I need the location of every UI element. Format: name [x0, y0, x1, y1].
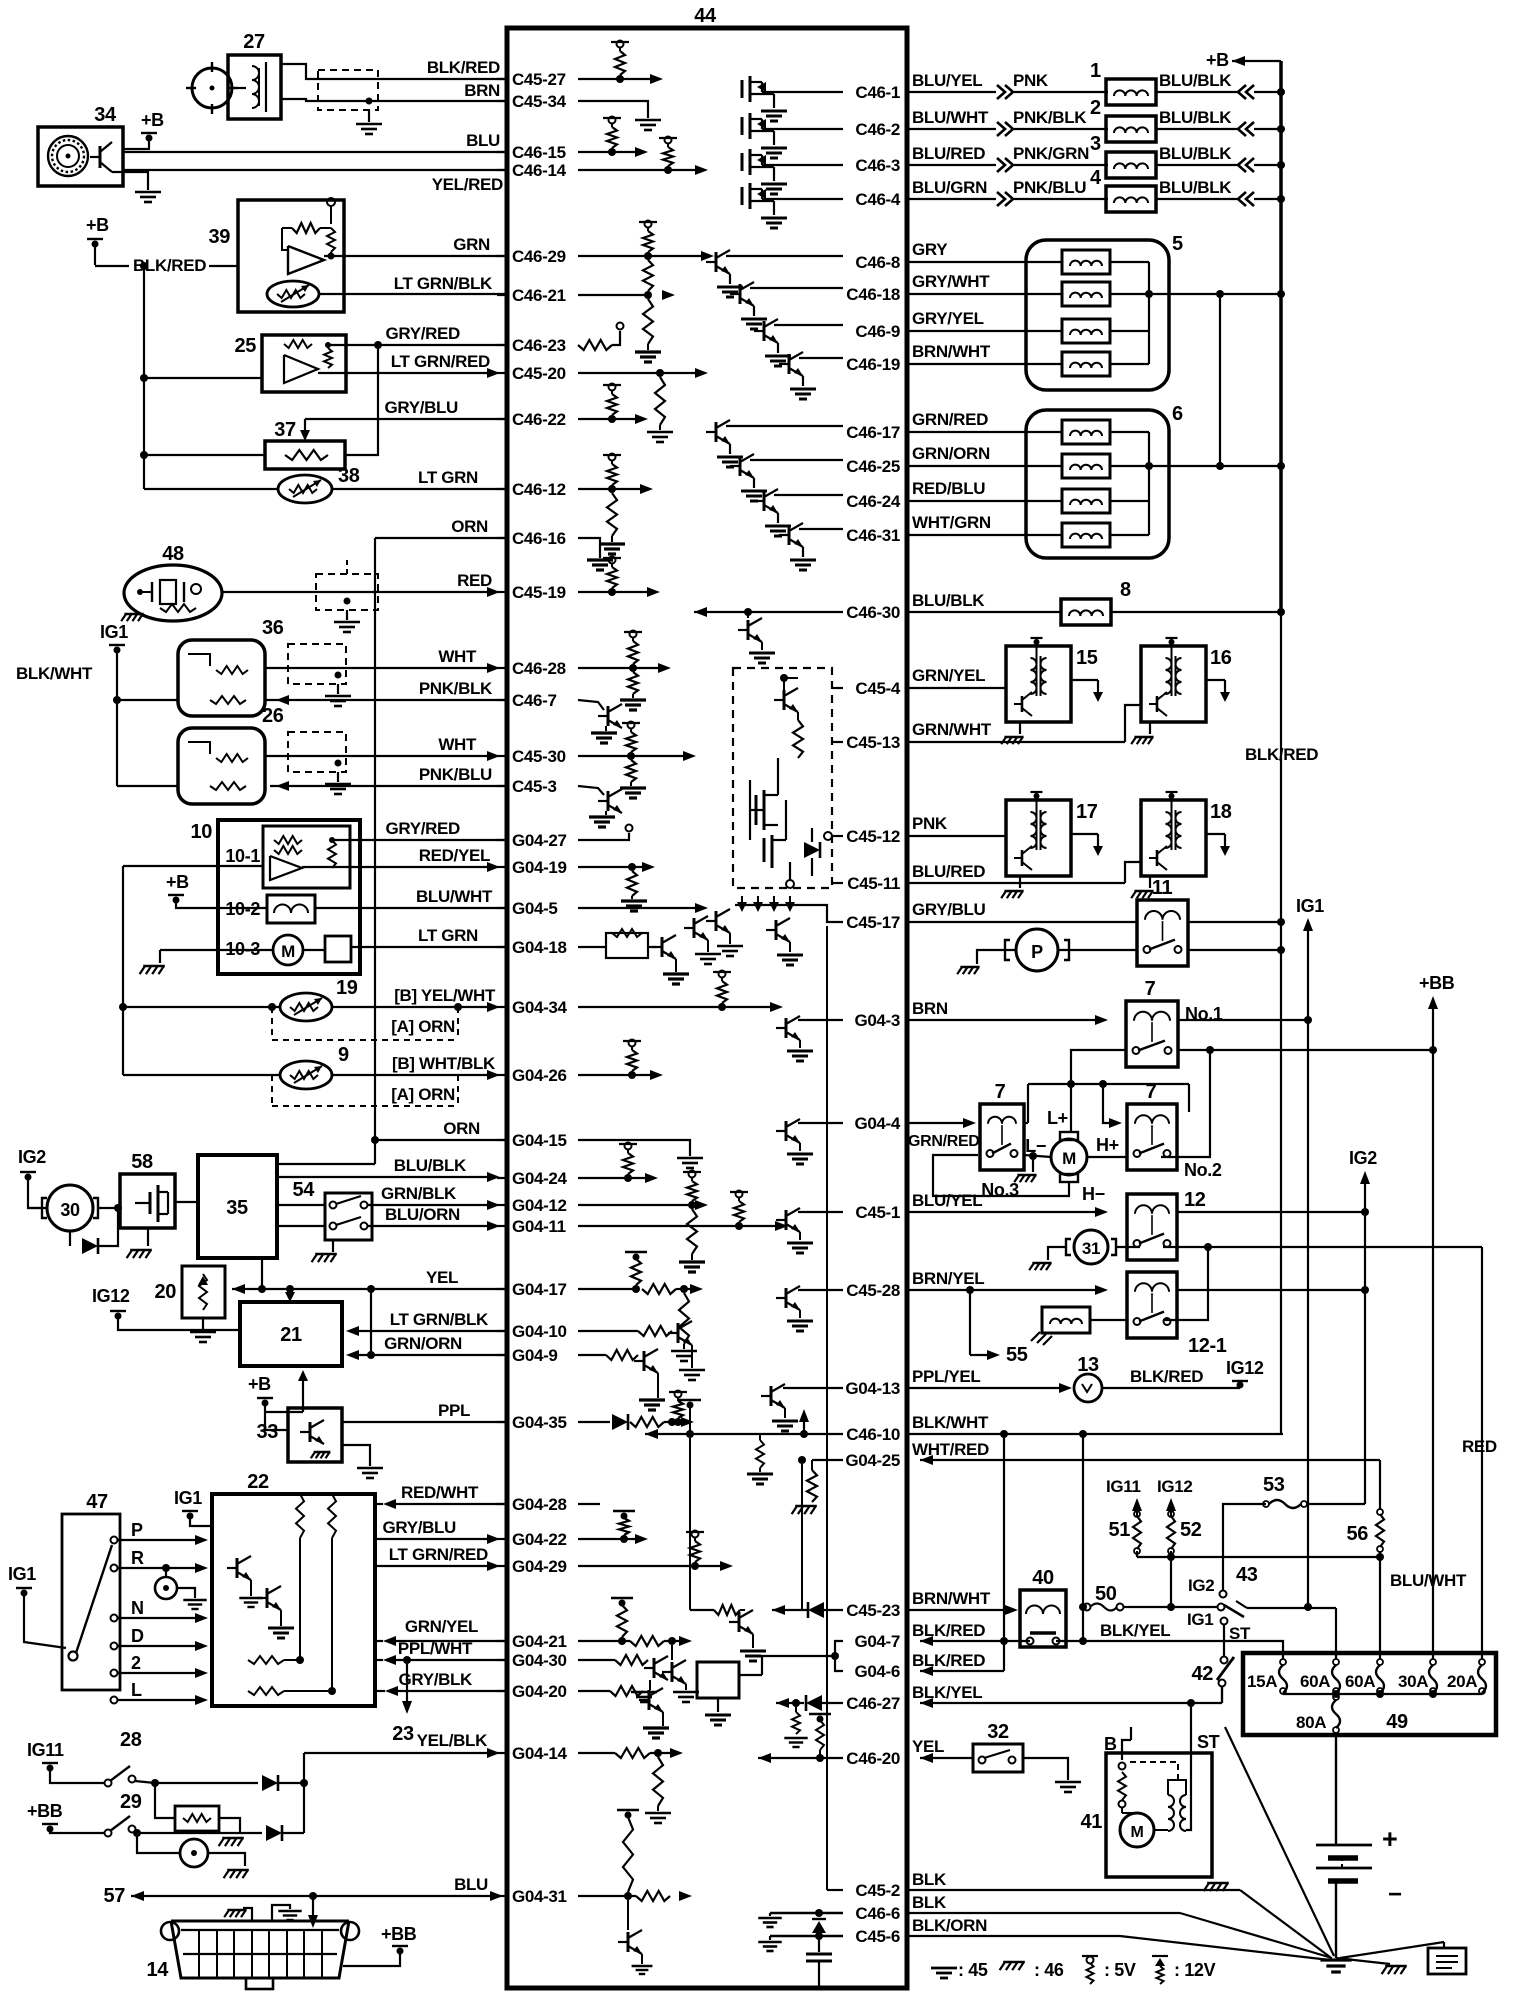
cell C46-20 [758, 1753, 843, 1763]
spark output 16 [1206, 680, 1230, 702]
12V pull-up chain G04-31 [617, 1810, 639, 1900]
output transistor C46-9 [754, 319, 843, 366]
pin G04-4 [854, 1114, 900, 1133]
output transistor C46-25 [730, 454, 843, 501]
svg-text:H+: H+ [1096, 1135, 1119, 1155]
svg-text:D: D [131, 1626, 144, 1646]
wire PPL G04-35 [342, 1421, 506, 1423]
module output arrows [735, 896, 800, 912]
knock sensor 48 [121, 543, 222, 621]
svg-text:LT GRN: LT GRN [418, 468, 478, 487]
pin C46-6 [855, 1904, 900, 1923]
pin C45-6 [855, 1927, 900, 1946]
shield box 36 [288, 644, 351, 706]
fusible link 52 [1167, 1511, 1175, 1607]
relay 12-1 [1127, 1272, 1227, 1357]
svg-text:GRY/RED: GRY/RED [386, 324, 461, 343]
svg-text:C46-7: C46-7 [512, 691, 557, 710]
ground 58 [127, 1228, 152, 1258]
ground [356, 124, 382, 134]
spark output 15 [1071, 680, 1103, 702]
amplifier 39 box [209, 200, 344, 312]
svg-text:G04-35: G04-35 [512, 1413, 567, 1432]
chevron [997, 122, 1013, 136]
wire ST diag top [1221, 1687, 1223, 1703]
svg-text:[A] ORN: [A] ORN [391, 1085, 455, 1104]
svg-text:C46-31: C46-31 [846, 526, 900, 545]
amplifier 25 box [235, 335, 346, 392]
internal resistors 22 [296, 1494, 336, 1695]
svg-text:C46-19: C46-19 [846, 355, 900, 374]
label BLK/YEL 40 [1100, 1621, 1170, 1640]
wire G04-35 [578, 1414, 694, 1430]
op-amp in 25 [284, 340, 332, 383]
svg-text:C46-12: C46-12 [512, 480, 566, 499]
label BLU [466, 131, 500, 150]
wire 58 to 35 [175, 1201, 198, 1203]
svg-text:C46-1: C46-1 [855, 83, 900, 102]
ground 16 [1131, 722, 1153, 744]
svg-text:C45-20: C45-20 [512, 364, 566, 383]
svg-text:37: 37 [274, 419, 296, 441]
svg-text:48: 48 [162, 543, 184, 565]
5V pull-up chain C46-12 [603, 454, 621, 543]
wire BLU/BLK G04-24 [277, 1172, 500, 1182]
wire C45-19 [578, 587, 660, 597]
label [A] ORN [391, 1017, 455, 1036]
5V pull-up chain C46-28 [620, 631, 646, 711]
pin G04-29 [497, 1557, 567, 1576]
shield box 26 [288, 732, 351, 794]
fuse 60A b [1345, 1659, 1384, 1694]
svg-text:20A: 20A [1447, 1672, 1477, 1691]
label PPL [438, 1401, 470, 1420]
label YEL/RED [432, 175, 503, 194]
pin C46-14 [497, 161, 567, 180]
shield box 27 [318, 70, 378, 122]
label BLU/BLK [1155, 71, 1238, 92]
label LT GRN [418, 468, 478, 487]
wire to +B bus [1254, 195, 1285, 203]
solenoid coil GRY/WHT [1062, 282, 1110, 306]
transistor G04-21 [662, 1645, 699, 1702]
pin G04-34 [497, 998, 568, 1017]
svg-text:PPL/YEL: PPL/YEL [912, 1367, 980, 1386]
wire into 38 [144, 488, 278, 490]
svg-text:C45-27: C45-27 [512, 70, 566, 89]
wire N [118, 1598, 208, 1623]
legend ground 46 [1000, 1960, 1064, 1980]
pin G04-14 [497, 1744, 568, 1763]
label BLK/RED G04-6 [912, 1651, 1004, 1676]
wire RED/YEL from 10-1 [302, 862, 500, 872]
svg-text:12: 12 [1184, 1189, 1206, 1211]
wire BLU/WHT from 10-2 [315, 907, 506, 909]
wire 43 to fuse [1247, 1608, 1336, 1659]
pin C46-28 [497, 659, 566, 678]
label [B] YEL/WHT [394, 986, 496, 1005]
pin G04-15 [497, 1131, 567, 1150]
wire C45-20 [578, 368, 708, 378]
svg-text:BLU/BLK: BLU/BLK [1159, 71, 1232, 90]
svg-text:L: L [131, 1680, 142, 1700]
chevron [1238, 122, 1254, 136]
wire 56 down to fuse [1379, 1557, 1381, 1659]
svg-text:31: 31 [1082, 1239, 1100, 1258]
svg-text:C46-3: C46-3 [855, 156, 900, 175]
solenoid coil GRN/ORN [1062, 454, 1110, 478]
svg-text:GRN/WHT: GRN/WHT [912, 720, 992, 739]
IG12 supply 13 [1226, 1358, 1264, 1389]
pin C45-11 [847, 874, 900, 893]
pin C46-15 [497, 143, 566, 162]
relay 11 [1137, 877, 1188, 966]
svg-text:60A: 60A [1345, 1672, 1375, 1691]
wire LT GRN/RED G04-29 [375, 1561, 500, 1571]
pin C45-12 [846, 827, 900, 846]
lamp on R [155, 1568, 207, 1609]
pin G04-13 [845, 1379, 900, 1398]
svg-text:23: 23 [392, 1723, 414, 1745]
svg-text:BRN: BRN [912, 999, 948, 1018]
wire WHT/BLK from 9 [123, 1070, 500, 1080]
svg-text:GRY/BLU: GRY/BLU [383, 1518, 457, 1537]
wire G04-21 [578, 1636, 692, 1646]
ECU main box 44 [507, 5, 907, 1988]
svg-text:+BB: +BB [381, 1924, 417, 1944]
output transistor C46-24 [754, 489, 843, 536]
5V pull-up G04-26 [623, 1040, 641, 1080]
label GRY/RED [386, 819, 461, 838]
fuse 30A [1398, 1659, 1437, 1694]
label RED/BLU [909, 479, 1063, 501]
shield box 48 [316, 560, 378, 620]
svg-text:C46-9: C46-9 [855, 322, 900, 341]
wire BLU/ORN G04-11 [277, 1221, 500, 1231]
wire C46-12 [578, 484, 653, 494]
5V pull-up C46-15 [603, 117, 621, 157]
label ST 41 [1197, 1732, 1220, 1752]
igniter 36 box [178, 617, 284, 716]
12V pull-up C46-10 [679, 1400, 701, 1434]
bracket G04-7 G04-6 [831, 1641, 843, 1671]
pin C45-27 [497, 70, 566, 89]
svg-text:7: 7 [1146, 1081, 1157, 1103]
svg-text:C46-14: C46-14 [512, 161, 567, 180]
wire G04-31 [578, 1891, 692, 1901]
control unit 35 [198, 1155, 277, 1258]
svg-text:9: 9 [338, 1044, 349, 1066]
vertical bus left of ovals [119, 866, 263, 1075]
svg-text:M: M [281, 942, 295, 961]
transistor C46-7 [578, 700, 622, 743]
wire D [118, 1626, 208, 1651]
label PNK/BLU [419, 765, 492, 784]
svg-text:RED/WHT: RED/WHT [401, 1483, 479, 1502]
fusible link 53 [1263, 1474, 1307, 1508]
svg-text:: 12V: : 12V [1174, 1960, 1216, 1980]
wire IG1 contact down [1223, 1625, 1225, 1656]
label BLU/YEL 12 [909, 1191, 1108, 1217]
svg-text:15A: 15A [1247, 1672, 1277, 1691]
pin C46-31 [846, 526, 900, 545]
legend ground 45 [931, 1960, 988, 1980]
vertical BLK/WHT to relay40 [1003, 1434, 1005, 1671]
label BLU/BLK [1155, 108, 1238, 129]
internal vertical from G04-25 [801, 1464, 803, 1610]
svg-text:WHT/RED: WHT/RED [912, 1440, 989, 1459]
wire C46-28 [578, 663, 671, 673]
svg-text:12-1: 12-1 [1188, 1335, 1227, 1357]
wire G04-14 [578, 1748, 683, 1758]
transistor C45-1 [776, 1208, 843, 1253]
svg-text:GRY/WHT: GRY/WHT [912, 272, 990, 291]
svg-text:+B: +B [1206, 50, 1229, 70]
svg-text:R: R [131, 1548, 144, 1568]
pin G04-26 [497, 1066, 567, 1085]
svg-text:GRY/BLU: GRY/BLU [385, 398, 459, 417]
chevron [1238, 85, 1254, 99]
svg-text:PNK/BLU: PNK/BLU [1013, 178, 1086, 197]
label LT GRN/RED [391, 352, 490, 371]
wire ORN G04-15 [375, 1139, 506, 1141]
pin G04-27 [497, 831, 567, 850]
wire 23 arrow [392, 1660, 414, 1745]
legend 5V [1082, 1956, 1136, 1984]
svg-text:G04-11: G04-11 [512, 1217, 566, 1236]
switch 32 [973, 1721, 1023, 1772]
label BLK/RED G04-7 [912, 1621, 1030, 1646]
fan motor M [1051, 1132, 1087, 1182]
relay 7 No.1 [1126, 978, 1223, 1067]
wire C45-11 [832, 882, 843, 884]
svg-text:G04-14: G04-14 [512, 1744, 568, 1763]
ground 18 [1131, 876, 1153, 898]
svg-text:49: 49 [1386, 1711, 1408, 1733]
transistor C45-28 [776, 1286, 843, 1331]
relay driver 33 box [257, 1408, 342, 1462]
svg-text:G04-3: G04-3 [854, 1011, 900, 1030]
svg-text:+: + [1382, 1824, 1397, 1854]
resistor to ground G04-17 [671, 1293, 697, 1361]
pin C46-21 [497, 286, 566, 305]
resistor to ground G04-14 [645, 1757, 671, 1823]
pin C46-20 [846, 1749, 900, 1768]
svg-text:LT GRN/RED: LT GRN/RED [391, 352, 490, 371]
svg-text:PNK/BLK: PNK/BLK [419, 679, 493, 698]
svg-text:BLK/RED: BLK/RED [427, 58, 500, 77]
svg-text:IG1: IG1 [1296, 896, 1324, 916]
regulator box cell [697, 1656, 835, 1725]
ground [587, 560, 613, 570]
+B supply 39 [86, 215, 109, 265]
svg-text:40: 40 [1032, 1567, 1054, 1589]
svg-text:36: 36 [262, 617, 284, 639]
svg-text:C46-16: C46-16 [512, 529, 566, 548]
5V pull-up G04-24 [619, 1143, 637, 1183]
wire C45-17 [766, 905, 843, 965]
wire G04-30 [578, 1655, 668, 1702]
pin C45-4 [855, 679, 900, 698]
ground M left [1014, 1156, 1036, 1182]
label BRN/WHT [909, 342, 1063, 364]
label BLU/GRN [909, 178, 996, 199]
transmission control 22 box [212, 1471, 375, 1706]
thermistor 19 [280, 977, 358, 1021]
wire 51 52 to 56 [1137, 1553, 1384, 1561]
wire C45-34 to ground [578, 101, 648, 118]
svg-text:GRY/BLU: GRY/BLU [912, 900, 986, 919]
svg-text:51: 51 [1109, 1519, 1131, 1541]
wire G04-28 [578, 1503, 600, 1505]
svg-text:IG12: IG12 [1157, 1477, 1193, 1496]
wire LT GRN/RED from 25 [318, 368, 500, 378]
wire G04-19 [578, 862, 655, 872]
svg-text:WHT: WHT [438, 735, 477, 754]
label LT GRN/BLK [390, 1310, 489, 1329]
wire H- loop [933, 1155, 1069, 1196]
wire No.1 to motor [1070, 1084, 1072, 1133]
svg-text:22: 22 [247, 1471, 269, 1493]
svg-text:ST: ST [1197, 1732, 1220, 1752]
47 contacts [69, 1537, 118, 1704]
sensor 27 box [228, 31, 281, 119]
svg-text:G04-30: G04-30 [512, 1651, 567, 1670]
ground near 14 b [272, 1905, 302, 1921]
svg-text:BLK: BLK [912, 1870, 947, 1889]
label YEL/BLK [417, 1731, 488, 1750]
solenoid group 6 box [1026, 403, 1183, 558]
pin C46-29 [497, 247, 566, 266]
svg-text:IG2: IG2 [1349, 1148, 1377, 1168]
svg-text:L+: L+ [1047, 1108, 1068, 1128]
IG1 supply 22 [174, 1488, 212, 1526]
diode 30 [70, 1204, 122, 1254]
svg-text:2: 2 [1090, 97, 1101, 119]
transistor C45-23 [714, 1605, 766, 1661]
wire G04-10 [578, 1321, 705, 1380]
svg-text:C45-6: C45-6 [855, 1927, 900, 1946]
wire YEL/BLK G04-14 [304, 1748, 500, 1833]
svg-text:BLK/RED: BLK/RED [912, 1651, 985, 1670]
wire No.2 contact right [1161, 1050, 1210, 1157]
motor 31 [1066, 1230, 1116, 1264]
label BLK/RED 13 [1102, 1367, 1240, 1388]
ground 41 [1204, 1883, 1229, 1891]
wire G04-29 [578, 1561, 733, 1571]
svg-text:BLU/RED: BLU/RED [912, 862, 985, 881]
pin C46-18 [846, 285, 900, 304]
svg-text:PNK/BLU: PNK/BLU [419, 765, 492, 784]
label GRY/YEL [909, 309, 1063, 331]
svg-text:YEL: YEL [912, 1737, 944, 1756]
chevron [997, 158, 1013, 172]
svg-text:G04-24: G04-24 [512, 1169, 568, 1188]
wire BLU from 34 [123, 151, 506, 153]
svg-text:[A] ORN: [A] ORN [391, 1017, 455, 1036]
svg-text:G04-15: G04-15 [512, 1131, 567, 1150]
wire 50 to 43 [1123, 1603, 1312, 1611]
svg-text:41: 41 [1081, 1811, 1103, 1833]
label BLU/BLK 8 [909, 591, 1061, 612]
fuse 60A a [1300, 1659, 1340, 1694]
svg-text:LT GRN/BLK: LT GRN/BLK [394, 274, 493, 293]
svg-text:4: 4 [1090, 167, 1102, 189]
svg-text:39: 39 [209, 226, 231, 248]
label BLU [454, 1875, 488, 1894]
5V pull-up C46-22 [603, 384, 621, 424]
wire C45-27 [578, 74, 663, 84]
svg-text:GRN/ORN: GRN/ORN [912, 444, 990, 463]
motor 30 [28, 1185, 120, 1231]
label GRN/YEL [405, 1617, 478, 1636]
ground 33 [342, 1445, 383, 1478]
fuse bus [1283, 1690, 1482, 1698]
wire PNK/BLU to 26 [270, 781, 506, 791]
svg-text:47: 47 [86, 1491, 108, 1513]
svg-text:G04-29: G04-29 [512, 1557, 567, 1576]
IG1 supply right [1296, 896, 1324, 1609]
svg-text:8: 8 [1120, 579, 1131, 601]
5V pull-up G04-11 [730, 1191, 748, 1231]
pin G04-21 [497, 1632, 567, 1651]
svg-text:80A: 80A [1296, 1713, 1326, 1732]
svg-text:G04-4: G04-4 [854, 1114, 900, 1133]
5V pull-up C45-19 [603, 557, 621, 597]
pin C46-27 [846, 1694, 900, 1713]
wire G04-24 [578, 1173, 658, 1183]
lamp 29 [137, 1833, 249, 1878]
pin C46-3 [855, 156, 900, 175]
wire ST down [1190, 1703, 1192, 1758]
svg-text:19: 19 [336, 977, 358, 999]
wire LT GRN/BLK from 39 [319, 293, 506, 295]
svg-text:BLU/WHT: BLU/WHT [1390, 1571, 1467, 1590]
pin C45-19 [497, 583, 566, 602]
transistor G04-5 [706, 909, 743, 956]
wire 29 diode [133, 1825, 304, 1841]
svg-text:56: 56 [1347, 1523, 1369, 1545]
switch 29 [105, 1791, 142, 1837]
svg-text:13: 13 [1077, 1354, 1099, 1376]
svg-text:43: 43 [1236, 1564, 1258, 1586]
tie GRN/ORN to YEL [370, 1289, 372, 1355]
label BLK/RED bus [1245, 745, 1318, 764]
pin G04-5 [497, 899, 558, 918]
svg-text:BLU/GRN: BLU/GRN [912, 178, 987, 197]
svg-text:30: 30 [60, 1200, 80, 1220]
pin C45-3 [497, 777, 557, 796]
svg-text:C45-4: C45-4 [855, 679, 900, 698]
op-amp in 39 [282, 198, 335, 274]
IG11 supply [1106, 1477, 1142, 1541]
wire C45-4 [832, 687, 843, 689]
ground [599, 544, 625, 554]
svg-text:BLK/ORN: BLK/ORN [912, 1916, 987, 1935]
pin G04-9 [497, 1346, 558, 1365]
label BLK/ORN [909, 1916, 1330, 1960]
label GRY [909, 240, 1063, 262]
wire 53 to 43 [1223, 1504, 1266, 1590]
switch 50 [1084, 1583, 1124, 1611]
transistor G04-31 [618, 1900, 652, 1974]
wire G04-27 [578, 825, 633, 841]
svg-text:C45-3: C45-3 [512, 777, 557, 796]
pin G04-12 [497, 1196, 567, 1215]
IG12 supply 52 [1157, 1477, 1202, 1541]
solenoid coil GRY/YEL [1062, 319, 1110, 343]
ground 32 [1023, 1758, 1081, 1792]
